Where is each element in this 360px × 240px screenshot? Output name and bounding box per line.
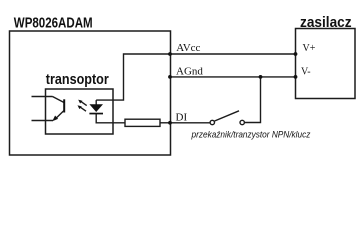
transistor Q1 base bar xyxy=(63,99,65,112)
transistor Q1 emitter diagonal xyxy=(55,111,65,120)
LED D1 cathode bar xyxy=(89,113,103,115)
node DI at module edge xyxy=(168,121,172,125)
resistor R1 xyxy=(125,119,160,126)
wire LED anode to AVcc node xyxy=(96,54,170,100)
svg-text:WP8026ADAM: WP8026ADAM xyxy=(14,14,93,31)
svg-text:V-: V- xyxy=(301,66,311,77)
node V+ at supply edge xyxy=(294,52,298,56)
wire AVcc xyxy=(170,53,296,55)
wire switch to AGnd riser xyxy=(244,77,260,123)
svg-text:zasilacz: zasilacz xyxy=(300,14,352,31)
svg-text:przekaźnik/tranzystor NPN/kluc: przekaźnik/tranzystor NPN/klucz xyxy=(191,129,311,139)
switch S1 lever xyxy=(215,111,239,121)
svg-text:V+: V+ xyxy=(303,43,316,54)
LED D1 triangle xyxy=(89,104,103,112)
svg-text:AGnd: AGnd xyxy=(176,66,203,78)
optocoupler box xyxy=(46,89,114,134)
svg-text:DI: DI xyxy=(176,111,188,123)
LED D1 anode stub xyxy=(95,100,97,104)
switch S1 right contact xyxy=(240,120,244,124)
svg-text:transoptor: transoptor xyxy=(46,70,110,87)
transistor Q1 emitter arrowhead xyxy=(52,116,58,122)
node V- at supply edge xyxy=(294,75,298,79)
switch S1 left contact xyxy=(210,120,214,124)
module box WP8026ADAM xyxy=(10,31,171,155)
transistor Q1 emitter lead xyxy=(32,120,54,122)
light arrow upper head xyxy=(78,100,82,104)
wire resistor to DI node xyxy=(160,122,170,124)
svg-text:AVcc: AVcc xyxy=(176,42,200,54)
node AGnd at module edge xyxy=(168,75,172,79)
light arrow lower head xyxy=(78,105,82,109)
wire DI to switch xyxy=(170,122,210,124)
node AGnd riser junction xyxy=(259,75,263,79)
transistor Q1 collector lead xyxy=(32,96,53,98)
wire AGnd xyxy=(170,76,296,78)
node AVcc at module edge xyxy=(168,52,172,56)
transistor Q1 collector diagonal xyxy=(53,97,65,103)
supply box zasilacz xyxy=(296,29,356,99)
light arrow lower xyxy=(79,106,86,111)
light arrow upper xyxy=(80,101,87,106)
wire LED cathode to resistor xyxy=(96,114,125,123)
